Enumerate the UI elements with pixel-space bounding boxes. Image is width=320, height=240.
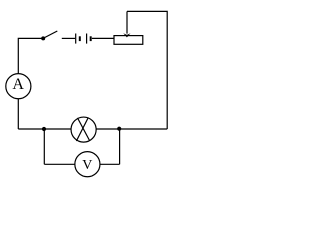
battery B1 long plate 2 (+): [86, 34, 88, 44]
rheostat R1 body: [114, 36, 143, 45]
switch S1 arm (open): [44, 31, 58, 38]
battery B1 long plate 1 (+): [75, 34, 77, 44]
battery B1 short plate 1 (-): [79, 36, 81, 41]
switch S1 contact dot: [41, 36, 45, 40]
ammeter A1 body: [6, 74, 31, 99]
wire: bottom rail: [18, 128, 167, 130]
battery B1 short plate 2 (-): [90, 36, 92, 41]
voltmeter V1 body: [75, 152, 100, 177]
wire: switch to battery: [62, 37, 75, 39]
lamp L1 cross line 2: [76, 118, 88, 142]
wire: ammeter bottom to bottom-left corner: [17, 98, 19, 129]
lamp L1 cross line 1: [78, 118, 90, 141]
rheostat R1 wiper arrowhead: [123, 33, 130, 37]
wire: left voltmeter branch: [43, 129, 45, 164]
lamp L1 body: [71, 117, 96, 142]
wire: top rail and right rail: [127, 11, 167, 129]
rheostat R1 wiper wire: [126, 11, 128, 33]
wire top-left: switch to left rail down to ammeter: [18, 38, 43, 73]
svg-text:V: V: [82, 158, 92, 173]
node junction dot right: [117, 127, 121, 131]
wire: battery to rheostat: [92, 37, 114, 39]
node junction dot left: [42, 127, 46, 131]
wire: right voltmeter branch: [119, 129, 121, 165]
svg-text:A: A: [12, 76, 24, 93]
wire: voltmeter bottom rail: [44, 163, 119, 165]
